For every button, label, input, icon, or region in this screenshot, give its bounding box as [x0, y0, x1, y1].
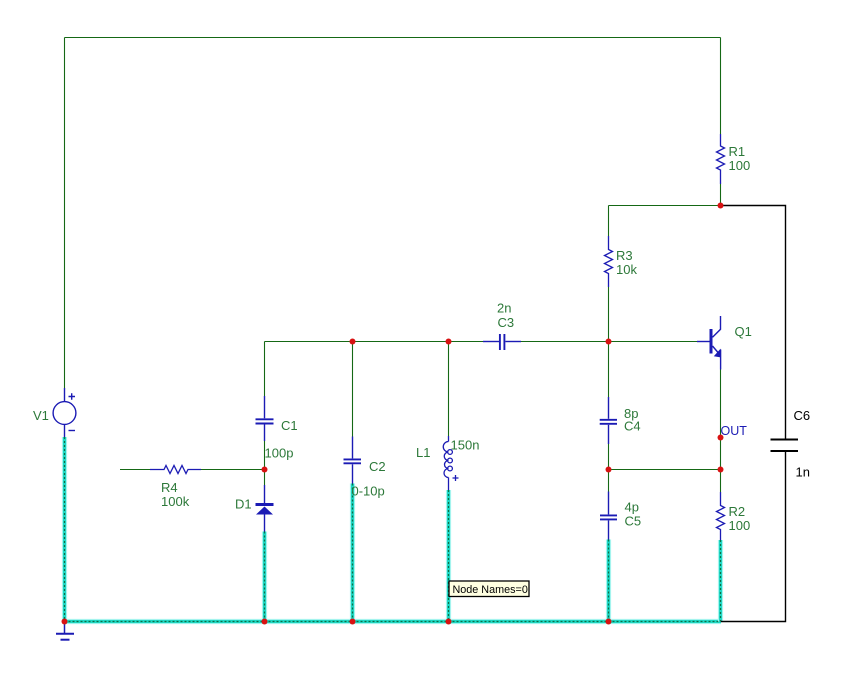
resistor R2: [717, 492, 725, 540]
svg-text:100k: 100k: [161, 494, 190, 509]
black wires (C6 net): [721, 206, 786, 622]
svg-text:C6: C6: [794, 408, 811, 423]
wire R4 left stub: [120, 469, 150, 471]
wire L1 bottom to rail (teal): [446, 490, 451, 622]
node base junction: [606, 339, 612, 345]
wire R1 top: [720, 38, 722, 135]
wire node A horizontal left: [265, 341, 484, 343]
wire R2 bottom to rail (teal): [718, 540, 723, 622]
inductor L1: [443, 436, 458, 490]
svg-text:0-10p: 0-10p: [352, 484, 385, 499]
resistor R4: [150, 466, 201, 474]
svg-text:L1: L1: [416, 445, 430, 460]
svg-text:OUT: OUT: [721, 424, 748, 438]
svg-text:10k: 10k: [616, 262, 637, 277]
node C1/D1/R4 junction: [262, 467, 268, 473]
wire C4 bottom to node: [608, 444, 610, 470]
svg-text:150n: 150n: [451, 438, 480, 453]
wire R3 upper: [608, 206, 610, 237]
wire R3 lower to base node: [608, 287, 610, 342]
node OUT marker: [718, 435, 724, 441]
svg-text:100: 100: [729, 158, 751, 173]
svg-text:Q1: Q1: [735, 324, 752, 339]
svg-text:R3: R3: [616, 248, 633, 263]
ground rail bottom (teal): [65, 619, 722, 624]
node C2 top junction: [350, 339, 356, 345]
svg-text:V1: V1: [33, 408, 49, 423]
svg-text:C5: C5: [625, 514, 642, 529]
svg-text:1n: 1n: [796, 465, 810, 480]
node R1 bottom junction: [718, 203, 724, 209]
wire R2 top: [720, 470, 722, 493]
capacitor C6: [771, 440, 799, 452]
wire C5 top: [608, 470, 610, 492]
diode D1: [256, 485, 274, 532]
node R2 top junction: [718, 467, 724, 473]
wire node A horizontal right: [521, 341, 609, 343]
node C2 rail junction: [350, 619, 356, 625]
svg-text:R4: R4: [161, 480, 178, 495]
svg-text:C4: C4: [624, 419, 641, 434]
wire R3 top horizontal: [609, 205, 721, 207]
capacitor C1: [256, 396, 274, 441]
wire D1 cathode to rail (teal): [262, 532, 267, 622]
svg-text:2n: 2n: [497, 301, 511, 316]
svg-text:C3: C3: [498, 315, 515, 330]
wire R4 right to C1 node: [201, 469, 265, 471]
capacitor C5: [600, 492, 617, 540]
green wires: [65, 38, 721, 493]
wire left vertical V1 plus: [64, 38, 66, 389]
wire C2 top drop: [352, 342, 354, 437]
node ground junction: [62, 619, 68, 625]
svg-text:C1: C1: [281, 418, 298, 433]
wire C5 bottom to rail (teal): [606, 540, 611, 622]
wire C6 bottom to rail: [721, 452, 786, 622]
wire Q1 emitter to OUT node: [720, 370, 722, 470]
wire C2 bottom to rail (teal): [350, 484, 355, 622]
resistor R3: [605, 236, 613, 287]
svg-text:Node Names=0: Node Names=0: [453, 584, 528, 596]
wire R1 bottom to node: [720, 184, 722, 206]
wire R1 node to C6 top: [721, 206, 786, 440]
wire C1 top drop: [264, 342, 266, 397]
svg-text:D1: D1: [235, 497, 252, 512]
wire mid horizontal C4/C5 node to R2 node: [609, 469, 721, 471]
svg-text:C2: C2: [369, 459, 386, 474]
node L1 top junction: [446, 339, 452, 345]
svg-text:4p: 4p: [625, 500, 639, 515]
svg-text:R2: R2: [729, 504, 746, 519]
node D1 rail junction: [262, 619, 268, 625]
capacitor C4: [600, 397, 617, 444]
wire L1 top drop: [448, 342, 450, 437]
voltage source V1: [53, 388, 76, 437]
capacitor C2: [344, 437, 362, 484]
teal net wires (ground net highlight): [65, 437, 722, 622]
svg-text:R1: R1: [729, 144, 746, 159]
ground: [56, 623, 74, 640]
wire base node to Q1: [609, 341, 698, 343]
node L1 rail junction: [446, 619, 452, 625]
node C4/C5 junction: [606, 467, 612, 473]
wire C1 bottom to D1: [264, 441, 266, 485]
Node Names annotation box: [449, 581, 529, 597]
wire C4 top: [608, 342, 610, 398]
svg-text:100p: 100p: [265, 446, 294, 461]
svg-text:100: 100: [729, 518, 751, 533]
resistor R1: [717, 134, 725, 184]
wire V1 minus to ground rail (teal): [62, 437, 67, 622]
node C5 rail junction: [606, 619, 612, 625]
capacitor C3: [483, 334, 521, 350]
transistor Q1: [697, 316, 721, 370]
wire top rail V1 to R1: [65, 37, 721, 39]
